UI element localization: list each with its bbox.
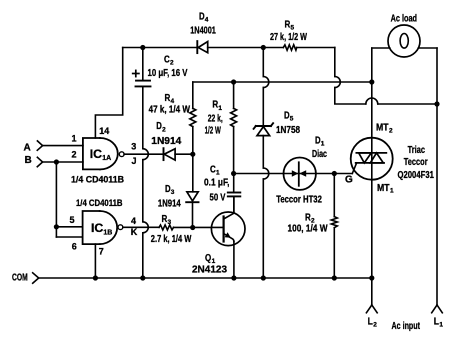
svg-text:2: 2 [162, 126, 166, 133]
svg-text:C: C [210, 165, 216, 176]
svg-text:Ac load: Ac load [391, 14, 417, 25]
svg-text:0.1 μF,: 0.1 μF, [204, 178, 230, 189]
svg-text:1/4 CD4011B: 1/4 CD4011B [71, 175, 124, 186]
svg-text:3: 3 [171, 189, 175, 196]
svg-text:1: 1 [439, 322, 443, 329]
svg-text:L: L [434, 317, 439, 328]
svg-text:K: K [131, 227, 138, 237]
svg-text:IC: IC [90, 147, 102, 161]
svg-text:4: 4 [205, 17, 209, 24]
svg-text:MT: MT [377, 183, 390, 194]
svg-text:1: 1 [72, 133, 77, 143]
svg-text:D: D [315, 136, 321, 147]
svg-text:2N4123: 2N4123 [192, 265, 227, 276]
svg-text:1B: 1B [103, 229, 112, 236]
svg-text:D: D [156, 121, 162, 132]
svg-text:5: 5 [70, 215, 75, 225]
svg-text:COM: COM [12, 273, 28, 284]
svg-text:50 V: 50 V [210, 192, 226, 203]
svg-text:D: D [199, 12, 205, 23]
svg-text:2.7 k, 1/4 W: 2.7 k, 1/4 W [151, 234, 192, 245]
svg-text:2: 2 [72, 150, 77, 160]
svg-text:B: B [25, 155, 32, 166]
svg-text:1/4 CD4011B: 1/4 CD4011B [76, 198, 123, 209]
svg-text:10 μF, 16 V: 10 μF, 16 V [148, 68, 188, 79]
svg-text:D: D [284, 111, 290, 122]
svg-text:6: 6 [72, 241, 77, 251]
svg-text:Q2004F31: Q2004F31 [398, 170, 435, 181]
svg-text:1/2 W: 1/2 W [205, 126, 222, 137]
svg-text:D: D [165, 184, 171, 195]
svg-text:Diac: Diac [312, 149, 327, 160]
svg-text:1: 1 [321, 141, 325, 148]
svg-text:5: 5 [290, 116, 294, 123]
svg-text:27 k, 1/2 W: 27 k, 1/2 W [270, 32, 307, 43]
svg-text:1: 1 [218, 105, 222, 112]
svg-text:5: 5 [291, 25, 295, 32]
svg-text:1: 1 [390, 188, 394, 195]
svg-text:14: 14 [99, 126, 109, 136]
svg-text:Q: Q [205, 253, 211, 264]
svg-text:4: 4 [131, 216, 136, 226]
svg-text:Teccor HT32: Teccor HT32 [276, 194, 322, 205]
svg-text:1N914: 1N914 [158, 198, 181, 209]
svg-text:2: 2 [373, 322, 377, 329]
svg-text:47 k, 1/4 W: 47 k, 1/4 W [149, 105, 191, 116]
svg-text:J: J [132, 156, 137, 166]
svg-text:Ac input: Ac input [392, 321, 421, 332]
svg-text:1N758: 1N758 [276, 125, 300, 136]
svg-text:7: 7 [99, 247, 104, 257]
svg-text:L: L [368, 317, 373, 328]
svg-text:100, 1/4 W: 100, 1/4 W [288, 224, 328, 235]
svg-text:MT: MT [376, 123, 389, 134]
svg-text:2: 2 [170, 60, 174, 67]
svg-text:1: 1 [216, 170, 220, 177]
svg-text:Teccor: Teccor [404, 157, 428, 168]
svg-text:IC: IC [91, 221, 103, 235]
svg-text:1N914: 1N914 [151, 136, 181, 147]
svg-text:3: 3 [168, 219, 172, 226]
svg-text:1A: 1A [102, 155, 111, 162]
svg-text:3: 3 [131, 142, 136, 152]
svg-text:1N4001: 1N4001 [190, 26, 216, 37]
svg-text:Triac: Triac [408, 145, 426, 156]
svg-text:C: C [164, 55, 170, 66]
svg-text:2: 2 [389, 128, 393, 135]
svg-text:A: A [24, 142, 31, 153]
svg-text:G: G [345, 175, 353, 186]
svg-text:22 k,: 22 k, [208, 114, 223, 125]
